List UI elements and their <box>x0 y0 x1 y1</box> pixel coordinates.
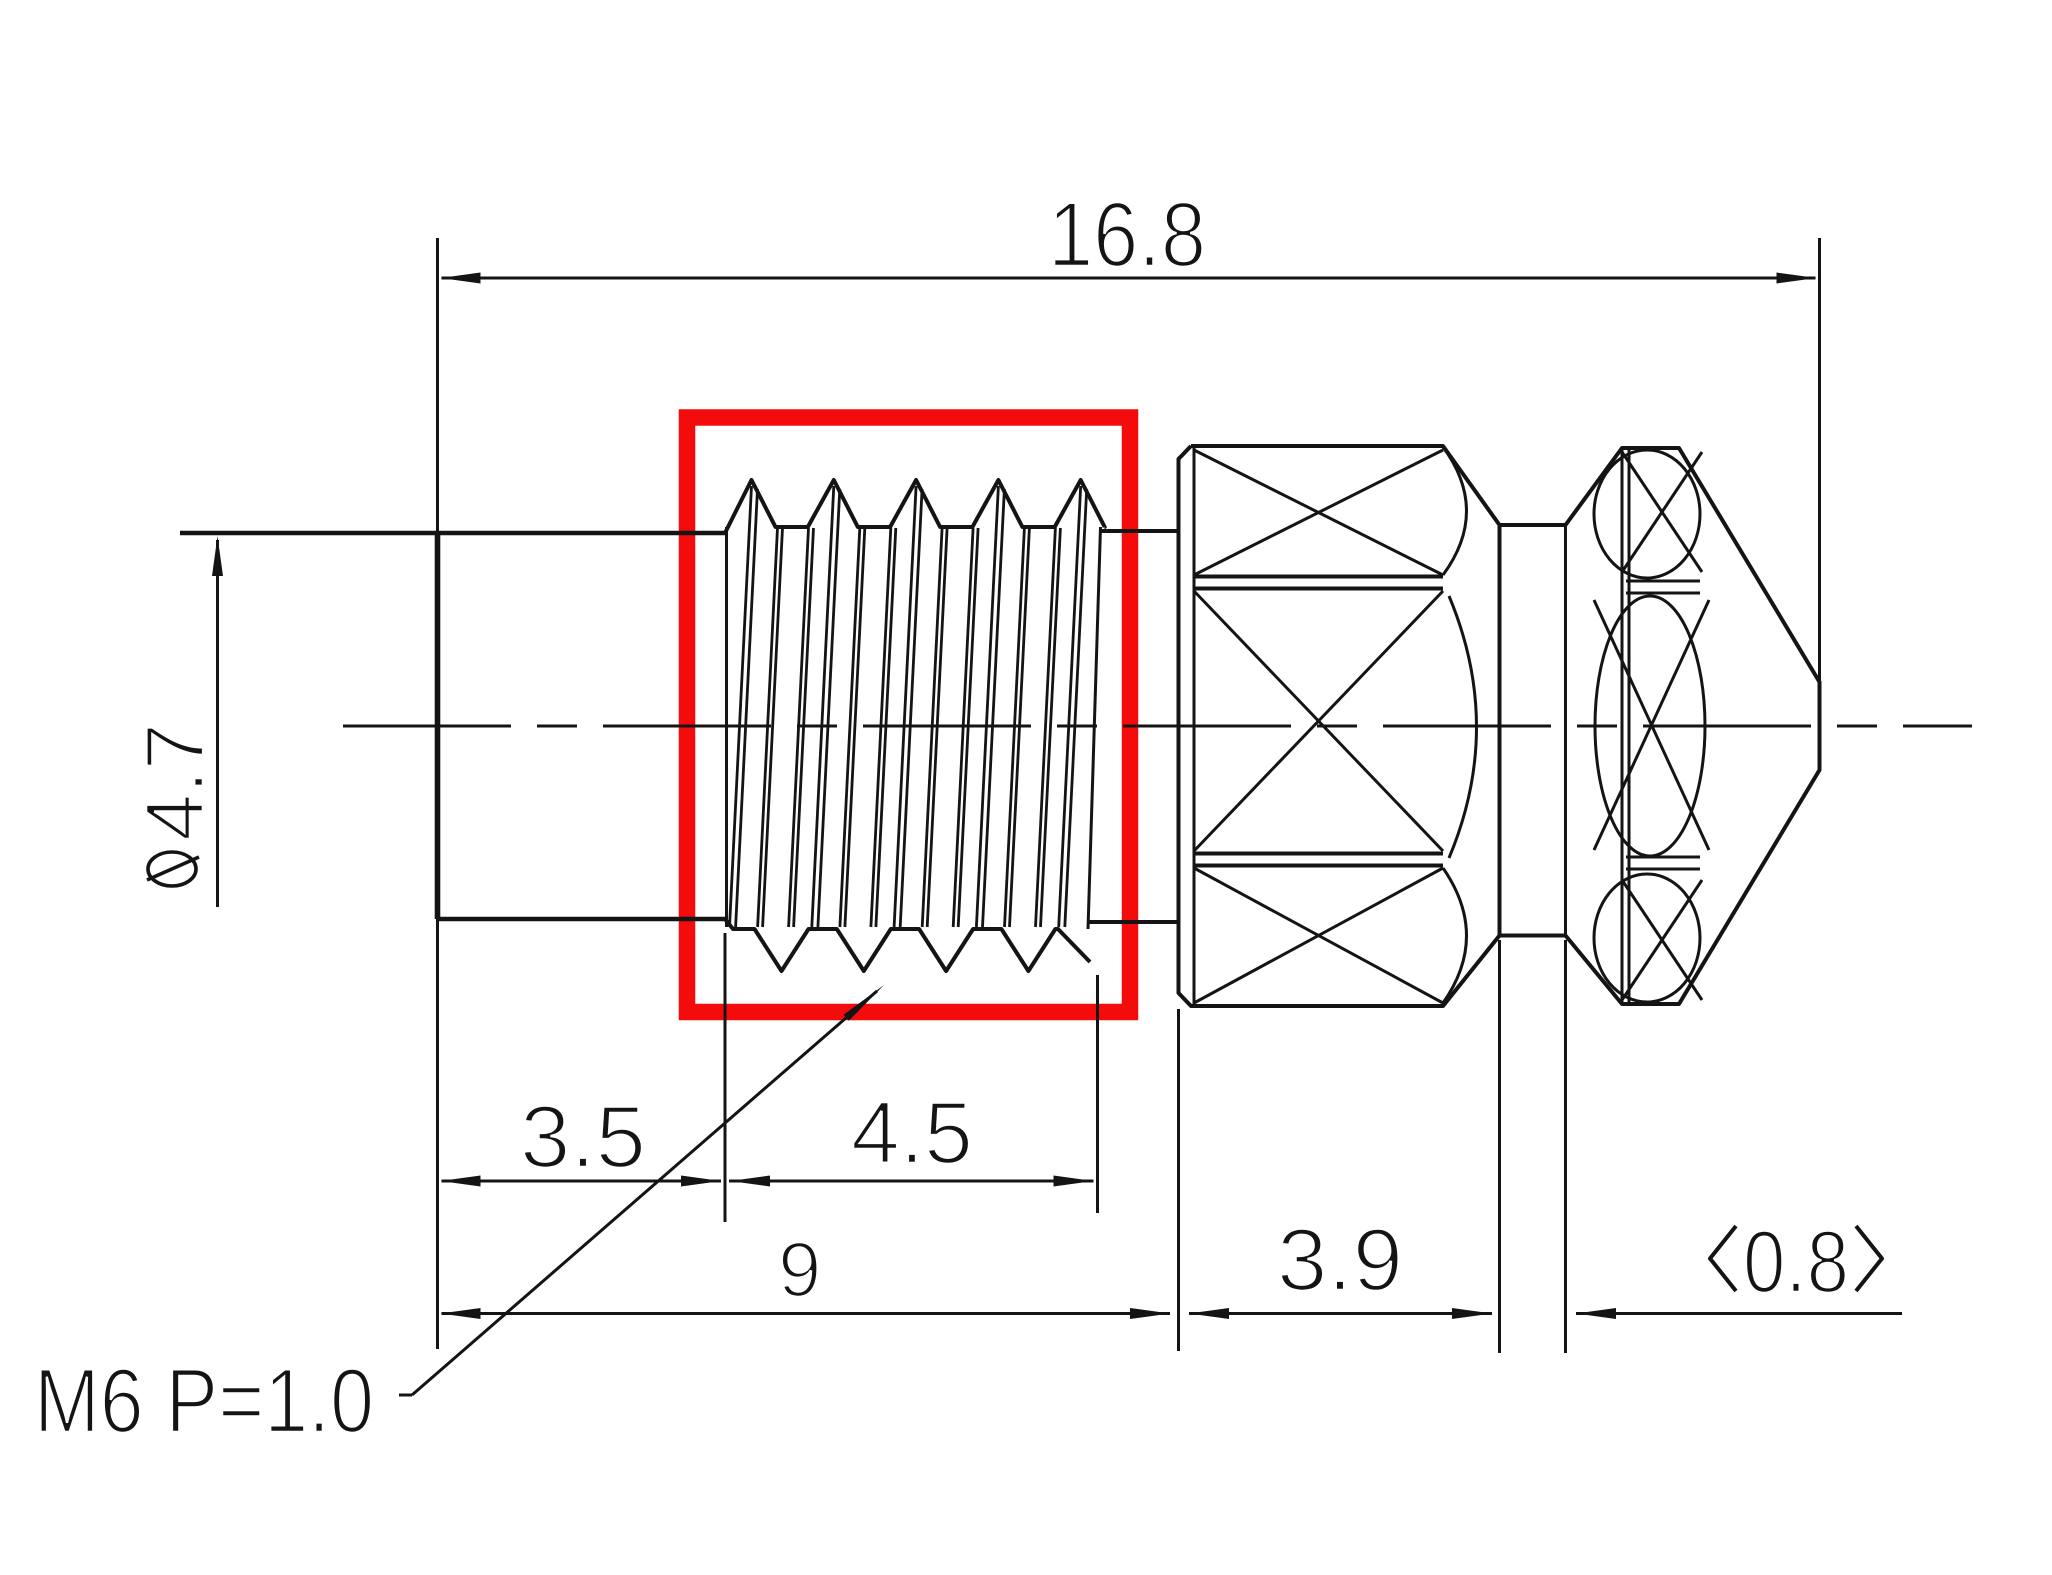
dim line 0.8 <box>1576 1308 1902 1319</box>
small knurl lower oval <box>1594 874 1700 1002</box>
label M6 P=1.0 <box>34 1351 374 1452</box>
extension line thread start <box>724 933 727 1222</box>
thread right boundary <box>1088 527 1101 929</box>
hex bottom band right arc <box>1443 868 1467 1003</box>
svg-text:16.8: 16.8 <box>1048 184 1206 286</box>
label 3.5 <box>520 1087 646 1186</box>
label 16.8 <box>1048 184 1206 286</box>
second neck top edge <box>1500 523 1566 527</box>
svg-text:M6 P=1.0: M6 P=1.0 <box>34 1351 374 1452</box>
svg-text:0.8: 0.8 <box>1743 1212 1849 1311</box>
small knurl upper divider lines <box>1626 581 1700 593</box>
svg-text:4.7: 4.7 <box>128 723 221 841</box>
hex top band right arc <box>1443 447 1467 575</box>
extension line hex left <box>1177 1009 1180 1351</box>
hex left inner edge <box>1193 446 1196 1006</box>
dim line phi4.7 vertical <box>212 536 223 907</box>
dim line 16.8 <box>441 273 1817 284</box>
dim line 3.9 <box>1189 1308 1492 1319</box>
hex bottom band X <box>1194 868 1443 1003</box>
extension line neck left <box>1498 940 1501 1353</box>
neck bottom line (thread to hex) <box>1088 920 1179 924</box>
leader line M6 <box>399 985 884 1395</box>
label 4.5 <box>851 1083 973 1182</box>
label (0.8) <box>1710 1212 1882 1311</box>
hex middle band X <box>1194 591 1443 851</box>
extension line thread end <box>1096 975 1099 1213</box>
centerline (dash-dot axis) <box>343 725 1972 728</box>
neck top line (thread to hex) <box>1101 529 1179 533</box>
label 9 <box>778 1225 821 1313</box>
hex body outline <box>1179 446 1500 1006</box>
svg-text:3.9: 3.9 <box>1277 1210 1403 1309</box>
extension line left (x=437.5) <box>436 238 439 1349</box>
second neck right edge <box>1564 525 1567 936</box>
extension line right at cone tip <box>1818 238 1821 682</box>
small knurl upper X <box>1622 452 1702 572</box>
thread flank helix lines <box>730 486 1087 927</box>
phi symbol <box>147 852 199 886</box>
svg-text:3.5: 3.5 <box>520 1087 646 1186</box>
thread left boundary <box>725 527 728 927</box>
thread top crest profile <box>725 480 1105 533</box>
small knurl vertical edges <box>1622 448 1629 1004</box>
dim line 9 <box>441 1308 1171 1319</box>
red highlight box around thread <box>687 418 1130 1013</box>
svg-text:4.5: 4.5 <box>851 1083 973 1182</box>
cylinder top edge (with phi4.7 extension) <box>180 531 725 536</box>
thread bottom valley profile <box>725 919 1090 971</box>
small knurl middle X <box>1594 600 1709 850</box>
small knurl lower divider lines <box>1626 857 1700 869</box>
hex top band X <box>1194 450 1443 575</box>
dim line 3.5 <box>441 1176 722 1187</box>
label 3.9 <box>1277 1210 1403 1309</box>
small knurl lower X <box>1622 880 1702 1000</box>
hex lower divider lines <box>1194 854 1443 866</box>
hex upper divider lines <box>1194 577 1443 589</box>
label 4.7 rotated <box>128 723 221 841</box>
svg-text:9: 9 <box>778 1225 821 1313</box>
cylinder left edge <box>435 533 441 919</box>
small knurl upper oval <box>1594 450 1700 578</box>
dim line 4.5 <box>729 1176 1094 1187</box>
second neck bottom edge <box>1500 934 1566 938</box>
cylinder bottom edge <box>438 917 726 922</box>
hex middle band right arc <box>1449 596 1477 858</box>
extension line neck right <box>1564 940 1567 1353</box>
small knurl and cone outline <box>1566 448 1820 1004</box>
small knurl middle lens <box>1595 596 1705 856</box>
